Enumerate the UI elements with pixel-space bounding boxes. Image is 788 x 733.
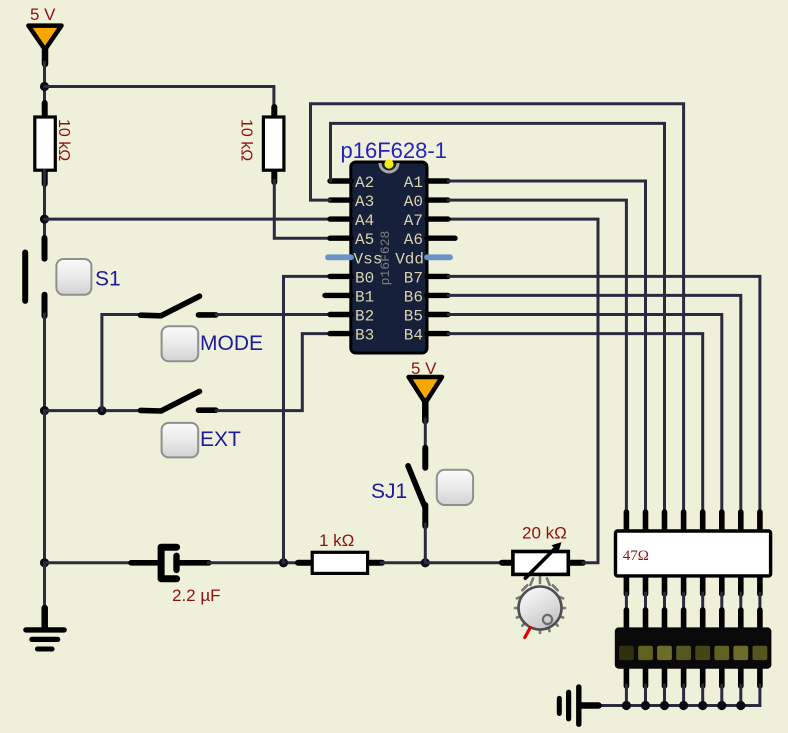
wire pin A3 to RN1 pin4 xyxy=(311,104,684,513)
capacitor C1 2.2uF xyxy=(131,547,221,605)
svg-text:B4: B4 xyxy=(404,327,423,345)
svg-text:B0: B0 xyxy=(355,269,374,287)
pin Vss xyxy=(328,254,351,260)
pin B2 xyxy=(330,312,351,317)
wire node E to C1 left xyxy=(45,561,134,564)
svg-text:47Ω: 47Ω xyxy=(623,548,649,564)
wire node D up to MODE left xyxy=(102,315,140,411)
node F junction xyxy=(279,558,288,567)
svg-text:5 V: 5 V xyxy=(30,5,56,24)
svg-text:p16F628: p16F628 xyxy=(378,231,393,286)
pin A3 xyxy=(330,197,351,202)
pin B4 xyxy=(427,331,448,336)
wire SJ1 to node G xyxy=(424,524,427,563)
svg-text:A6: A6 xyxy=(404,231,423,249)
svg-text:B1: B1 xyxy=(355,288,374,306)
wire pin A1 to RN1 pin2 xyxy=(448,181,646,513)
svg-text:A4: A4 xyxy=(355,212,374,230)
wire node E down to ground xyxy=(43,563,46,610)
pin B1 xyxy=(325,293,351,298)
wire R3 to node G xyxy=(381,561,425,564)
pin B3 xyxy=(330,331,351,336)
pin Vdd xyxy=(427,254,450,260)
svg-text:10 kΩ: 10 kΩ xyxy=(55,119,72,161)
svg-text:A2: A2 xyxy=(355,174,374,192)
wire pin B6 to RN1 pin7 xyxy=(448,295,741,513)
svg-text:A1: A1 xyxy=(404,174,423,192)
svg-text:p16F628-1: p16F628-1 xyxy=(341,138,447,163)
svg-text:B6: B6 xyxy=(404,288,423,306)
svg-text:MODE: MODE xyxy=(200,332,263,355)
ground GND1 xyxy=(26,608,64,649)
wire VR1 right up to pin A7 xyxy=(448,219,598,563)
svg-text:B7: B7 xyxy=(404,269,423,287)
switch SJ1 xyxy=(371,448,473,526)
svg-text:20 kΩ: 20 kΩ xyxy=(522,524,567,543)
wire R1 bottom to node B xyxy=(43,170,46,240)
wire pin A0 to RN1 pin1 xyxy=(448,200,626,513)
resistor R3 1k xyxy=(298,531,382,573)
node E junction xyxy=(40,558,49,567)
resistor network RN1 47 ohm xyxy=(616,512,771,594)
ground GND2 xyxy=(559,687,598,724)
LED bar LB1 xyxy=(615,610,772,686)
wire node B to pin A4 xyxy=(45,218,331,221)
switch S1 xyxy=(25,238,120,316)
svg-text:S1: S1 xyxy=(95,268,121,291)
potentiometer VR1 knob xyxy=(515,576,565,638)
pin A4 xyxy=(330,216,351,221)
junction dots on ground bus xyxy=(622,701,746,710)
node B junction xyxy=(40,215,49,224)
pin B6 xyxy=(427,293,448,298)
resistor R2 10k xyxy=(238,107,284,182)
pin B0 xyxy=(330,274,351,279)
svg-text:1 kΩ: 1 kΩ xyxy=(319,531,354,550)
wire P2 to SJ1 xyxy=(424,419,427,450)
wire LB1 pins to ground bus xyxy=(597,685,760,706)
svg-text:B2: B2 xyxy=(355,308,374,326)
node D junction MODE branch xyxy=(97,406,106,415)
svg-text:B5: B5 xyxy=(404,308,423,326)
wire pin A2 to RN1 pin3 xyxy=(331,123,665,513)
switch MODE xyxy=(141,296,264,361)
pin A0 xyxy=(427,197,448,202)
wire MODE right to pin B2 xyxy=(216,313,330,316)
svg-text:B3: B3 xyxy=(355,327,374,345)
node A junction xyxy=(40,82,49,91)
wire EXT right to pin B3 xyxy=(216,334,330,411)
pin A7 xyxy=(427,216,448,221)
svg-text:A0: A0 xyxy=(404,193,423,211)
pin B5 xyxy=(427,312,448,317)
IC U1 p16F628-1 xyxy=(325,138,455,353)
svg-text:10 kΩ: 10 kΩ xyxy=(238,119,255,161)
wire node F up to pin B0 xyxy=(284,276,331,562)
wire C1 to node F xyxy=(208,561,300,564)
svg-text:Vdd: Vdd xyxy=(395,250,424,268)
wire node C to EXT left xyxy=(45,409,142,412)
svg-text:A7: A7 xyxy=(404,212,423,230)
power +5V supply P2 xyxy=(409,359,442,421)
wire RN1 to LB1 pins xyxy=(626,593,760,612)
wire pin B7 to RN1 pin8 xyxy=(448,276,760,513)
svg-text:EXT: EXT xyxy=(200,428,241,451)
wire pin B4 to RN1 pin5 xyxy=(448,334,703,513)
wire node C to node E xyxy=(43,411,46,563)
pin A5 xyxy=(330,235,351,240)
wire P1 to node A xyxy=(43,62,46,117)
pin B7 xyxy=(427,274,448,279)
svg-text:A5: A5 xyxy=(355,231,374,249)
node C junction xyxy=(40,406,49,415)
node G junction xyxy=(421,558,430,567)
potentiometer VR1 20k xyxy=(502,524,583,579)
switch EXT xyxy=(141,391,242,457)
wire R2 bottom to pin A5 xyxy=(274,180,330,238)
pin A1 xyxy=(427,178,448,183)
power +5V supply P1 xyxy=(28,5,61,64)
svg-text:A3: A3 xyxy=(355,193,374,211)
pin A2 xyxy=(330,178,351,183)
pin A6 xyxy=(427,235,455,240)
wire S1 to node C xyxy=(43,314,46,411)
wire node A to R2 top xyxy=(45,87,274,111)
svg-text:SJ1: SJ1 xyxy=(371,480,407,503)
svg-text:2.2 µF: 2.2 µF xyxy=(172,586,221,605)
wire node G to VR1 left xyxy=(425,561,504,564)
wire pin B5 to RN1 pin6 xyxy=(448,315,722,514)
resistor R1 10k xyxy=(35,103,72,184)
